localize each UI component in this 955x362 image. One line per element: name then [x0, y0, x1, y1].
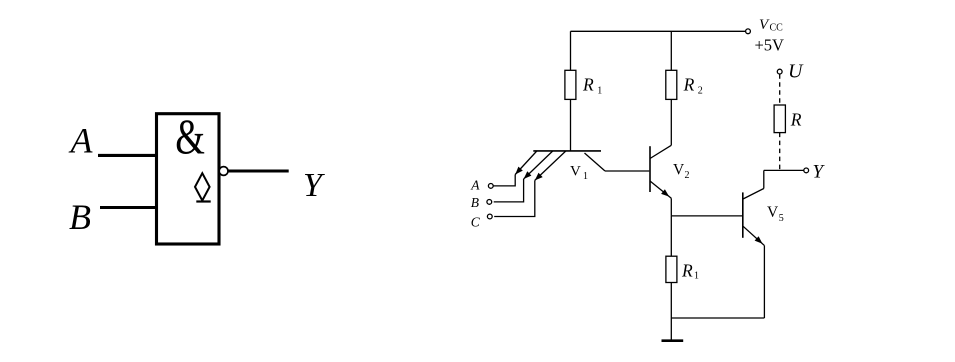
svg-text:C: C — [471, 214, 481, 229]
wire R2 bottom — [670, 99, 672, 145]
wire VCC rail — [571, 30, 746, 32]
svg-text:5: 5 — [779, 213, 784, 224]
ground bar — [662, 339, 684, 342]
svg-text:+5V: +5V — [755, 35, 785, 54]
dashed wire R to output Y wire — [779, 133, 781, 171]
transistor V1 collector — [585, 153, 606, 171]
transistor V1 emitter 1 — [515, 151, 537, 175]
VCC terminal — [746, 29, 751, 34]
svg-text:1: 1 — [597, 86, 602, 97]
output bubble — [219, 167, 228, 176]
svg-text:V: V — [759, 17, 770, 33]
svg-text:Y: Y — [813, 162, 826, 183]
wire emitter2 to terminal B — [494, 179, 524, 202]
svg-text:A: A — [69, 121, 94, 161]
svg-text:B: B — [471, 195, 479, 210]
transistor V5 emitter — [743, 226, 764, 245]
svg-text:A: A — [470, 178, 480, 193]
wire V5 collector up — [763, 170, 765, 188]
transistor V2 base bar — [649, 146, 651, 192]
wire input B — [100, 206, 158, 209]
transistor V5 collector — [743, 189, 764, 200]
transistor V1 emitter 3 — [535, 151, 566, 180]
transistor V2 emitter — [650, 181, 671, 198]
wire emitter1 to terminal A — [493, 175, 515, 186]
input terminal C — [487, 214, 492, 219]
output terminal Y — [804, 168, 809, 173]
svg-text:2: 2 — [698, 86, 703, 97]
resistor R2 — [666, 70, 677, 99]
wire bottom (R3 to V5 emitter) — [671, 317, 764, 319]
wire node to V5 base — [671, 215, 742, 217]
wire R1 top — [570, 31, 572, 70]
transistor V1 emitter 2 — [524, 151, 553, 179]
wire V2 emitter to node — [670, 198, 672, 216]
svg-text:B: B — [69, 197, 91, 237]
transistor V1 base bar — [533, 150, 601, 152]
svg-text:1: 1 — [583, 171, 588, 182]
wire emitter3 to terminal C — [494, 180, 535, 216]
svg-text:R: R — [683, 75, 695, 95]
svg-text:CC: CC — [770, 23, 784, 34]
svg-text:R: R — [790, 110, 802, 130]
wire V5 collector to Y — [764, 169, 804, 171]
open-collector underline — [196, 200, 210, 202]
input terminal B — [487, 200, 492, 205]
transistor V5 base bar — [742, 192, 744, 237]
svg-text:R: R — [681, 261, 693, 281]
svg-text:1: 1 — [694, 271, 699, 282]
wire V5 emitter down — [763, 245, 765, 318]
dashed wire U to R — [779, 74, 781, 105]
resistor R1 — [565, 70, 576, 99]
svg-text:2: 2 — [685, 170, 690, 181]
open-collector diamond symbol — [195, 173, 210, 200]
wire node to R3 — [670, 216, 672, 256]
svg-text:V: V — [570, 164, 581, 180]
resistor R (pull-up) — [774, 105, 785, 133]
wire output Y — [228, 169, 289, 172]
wire V1 collector to V2 base — [605, 170, 649, 172]
wire R3 bottom — [670, 283, 672, 319]
svg-text:&: & — [175, 108, 205, 164]
resistor R3 (labeled R1) — [666, 256, 677, 282]
svg-text:V: V — [673, 162, 685, 179]
svg-text:R: R — [582, 75, 594, 95]
svg-text:U: U — [788, 60, 804, 82]
transistor V2 collector — [650, 145, 671, 158]
gate box U1 (NAND open-collector) — [157, 114, 220, 244]
wire R2 top — [670, 31, 672, 70]
wire input A — [98, 154, 158, 157]
svg-text:V: V — [767, 204, 779, 221]
wire R1 bottom to V1 base — [570, 99, 572, 150]
svg-text:Y: Y — [303, 167, 325, 204]
terminal U — [777, 69, 782, 74]
input terminal A — [488, 184, 493, 189]
ground stub — [670, 318, 672, 341]
